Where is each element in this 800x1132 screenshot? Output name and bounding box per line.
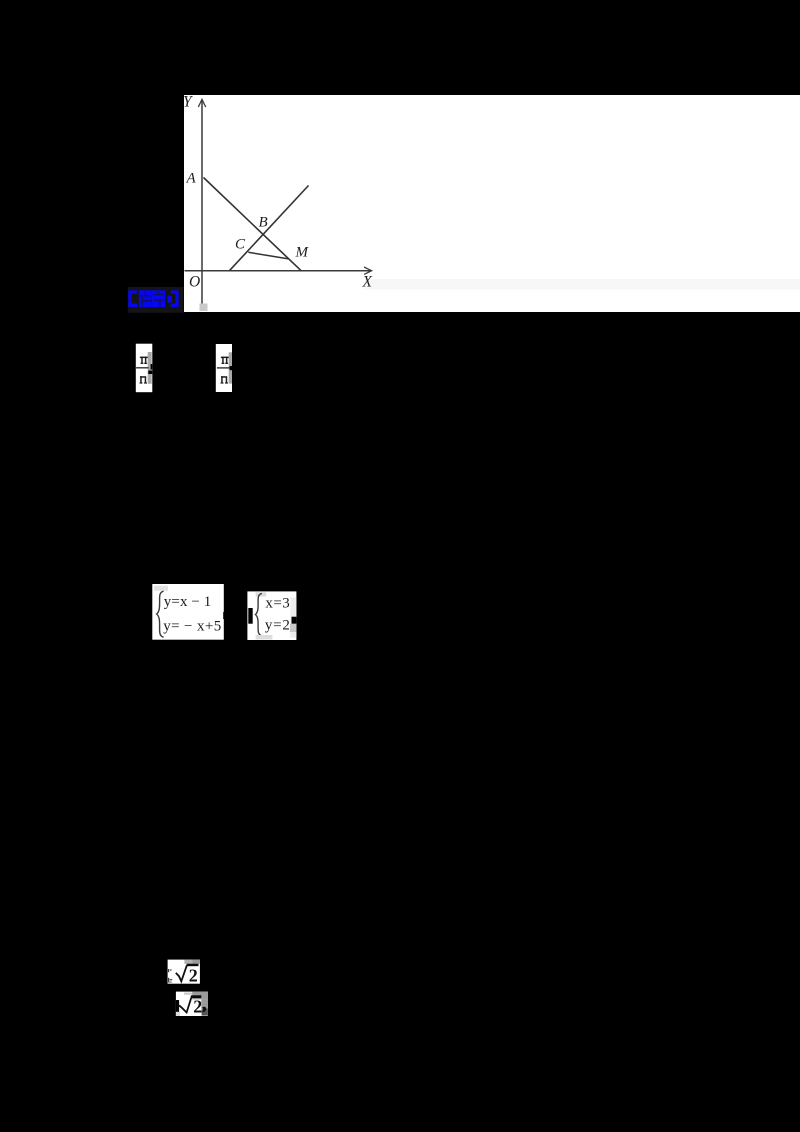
svg-text:B: B [259,215,268,231]
blue caption left bracket [128,290,137,307]
n denominator 2 [221,376,229,383]
svg-text:X: X [362,274,373,291]
faint shading band inside panel [365,279,800,290]
line A to x-axis (descending through B, M) [204,178,302,271]
vinculum 2 [191,995,201,998]
svg-text:y=x − 1: y=x − 1 [164,594,212,610]
graph white panel [184,95,800,312]
n denominator 1 [140,376,148,383]
fraction bar 2 [217,367,230,368]
tiny dark marks left edge 1 [168,969,169,972]
black notch left edge 2 [176,1000,179,1012]
fraction bar 1 [136,367,149,368]
light gray strip top [256,592,267,596]
sqrt2 box 2 [176,992,208,1017]
dark tick right edge box 1 [223,612,225,619]
equation system box 1 [152,584,225,640]
svg-text:O: O [189,274,200,291]
svg-text:2: 2 [189,966,198,986]
black notch right edge 2 [230,366,232,370]
svg-text:y= − x+5: y= − x+5 [163,619,221,635]
svg-text:2: 2 [193,997,202,1017]
ascending line through C and B [230,186,309,271]
gray strips top right 1 [184,960,192,964]
svg-text:Y: Y [183,94,193,111]
dark backing rect of blue caption [128,287,184,313]
pi numerator 2 [221,357,229,364]
pi numerator 1 [140,357,148,364]
blue caption right bracket [168,290,179,307]
x-axis arrowhead [364,267,372,274]
light gray strip bottom [256,635,273,640]
black square right edge [292,617,297,624]
svg-text:A: A [186,171,197,187]
right gray block 2 [201,999,208,1008]
gray selection handle at bottom of y-axis [200,304,208,312]
black blob on left edge [248,608,252,624]
black notches right edge 1 [151,364,153,370]
y-axis arrowhead [198,99,205,107]
svg-text:x=3: x=3 [265,595,289,611]
comma after 2 [202,1007,206,1013]
big brace 2 [255,593,262,635]
segment C to M [248,252,288,259]
blue caption glyph 2 [152,290,165,307]
x-axis [185,270,371,272]
equation system box 2 [247,591,296,640]
light gray right column [290,598,296,638]
right dark gray block 2 [202,1008,208,1015]
sqrt2 box 1 [168,960,200,986]
svg-text:C: C [235,237,246,253]
radical sign 2 [179,996,192,1012]
vinculum 1 [187,964,199,967]
fraction pi/n box 2 [216,344,232,392]
gray strips top 2 [184,993,192,995]
fraction pi/n box 1 [136,344,153,393]
light gray bottom-left 2 [176,1012,180,1016]
radical sign 1 [176,965,187,981]
svg-text:M: M [295,245,310,261]
big brace 1 [157,591,164,637]
light gray smudge top-left [154,586,168,591]
gray block right [290,624,296,632]
y-axis [201,100,203,304]
svg-text:y=2: y=2 [265,618,290,634]
blue caption glyph 1 [139,290,152,307]
